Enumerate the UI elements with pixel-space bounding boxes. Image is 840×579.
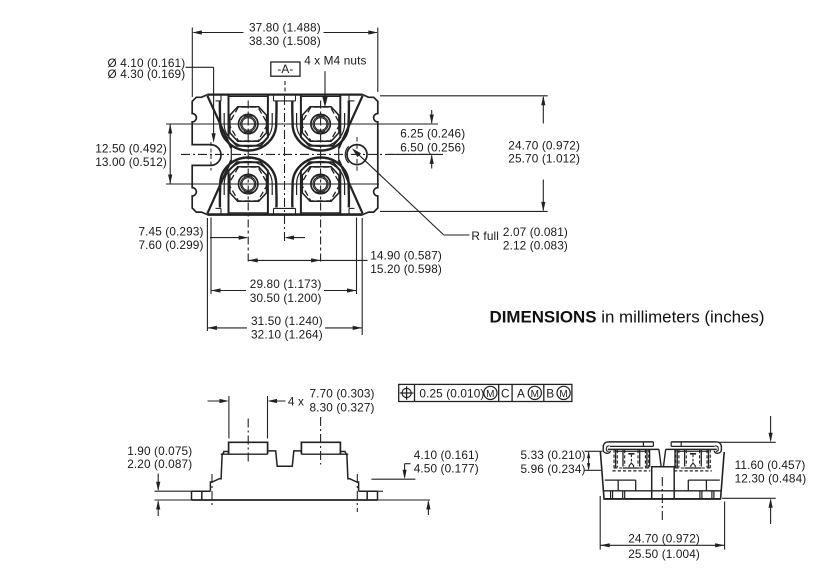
svg-text:4.50 (0.177): 4.50 (0.177) — [414, 461, 479, 475]
svg-text:M: M — [559, 389, 567, 400]
svg-text:M: M — [531, 389, 539, 400]
svg-text:DIMENSIONS in millimeters (inc: DIMENSIONS in millimeters (inches) — [490, 307, 765, 326]
svg-text:12.50 (0.492): 12.50 (0.492) — [95, 142, 167, 156]
svg-text:R full: R full — [471, 229, 499, 243]
svg-text:5.96 (0.234): 5.96 (0.234) — [521, 462, 586, 476]
svg-text:37.80 (1.488): 37.80 (1.488) — [249, 21, 321, 35]
svg-text:25.50 (1.004): 25.50 (1.004) — [628, 547, 700, 561]
svg-text:30.50 (1.200): 30.50 (1.200) — [250, 291, 322, 305]
svg-text:6.50 (0.256): 6.50 (0.256) — [400, 140, 465, 154]
svg-text:2.12 (0.083): 2.12 (0.083) — [503, 238, 568, 252]
svg-text:2.07 (0.081): 2.07 (0.081) — [503, 225, 568, 239]
svg-text:38.30 (1.508): 38.30 (1.508) — [249, 34, 321, 48]
svg-text:4 x: 4 x — [288, 394, 304, 408]
svg-text:Ø 4.30 (0.169): Ø 4.30 (0.169) — [108, 67, 186, 81]
svg-text:31.50 (1.240): 31.50 (1.240) — [251, 314, 323, 328]
svg-text:24.70 (0.972): 24.70 (0.972) — [508, 138, 580, 152]
svg-text:1.90 (0.075): 1.90 (0.075) — [127, 444, 192, 458]
svg-text:4.10 (0.161): 4.10 (0.161) — [414, 448, 479, 462]
svg-text:32.10 (1.264): 32.10 (1.264) — [251, 327, 323, 341]
svg-text:A: A — [517, 386, 525, 400]
svg-text:C: C — [501, 386, 510, 400]
svg-text:13.00 (0.512): 13.00 (0.512) — [95, 155, 167, 169]
svg-text:7.45 (0.293): 7.45 (0.293) — [138, 225, 203, 239]
svg-text:15.20 (0.598): 15.20 (0.598) — [370, 262, 442, 276]
svg-text:M: M — [486, 389, 494, 400]
svg-text:24.70 (0.972): 24.70 (0.972) — [628, 532, 700, 546]
svg-text:25.70 (1.012): 25.70 (1.012) — [508, 152, 580, 166]
svg-text:2.20 (0.087): 2.20 (0.087) — [127, 457, 192, 471]
svg-text:8.30 (0.327): 8.30 (0.327) — [310, 400, 375, 414]
svg-text:29.80 (1.173): 29.80 (1.173) — [250, 277, 322, 291]
svg-text:7.60 (0.299): 7.60 (0.299) — [138, 238, 203, 252]
svg-text:14.90 (0.587): 14.90 (0.587) — [370, 248, 442, 262]
svg-text:-A-: -A- — [277, 62, 293, 76]
svg-text:0.25 (0.010): 0.25 (0.010) — [419, 386, 484, 400]
svg-text:6.25 (0.246): 6.25 (0.246) — [400, 127, 465, 141]
svg-text:5.33 (0.210): 5.33 (0.210) — [521, 448, 586, 462]
svg-text:12.30 (0.484): 12.30 (0.484) — [735, 472, 807, 486]
svg-text:B: B — [546, 386, 554, 400]
svg-text:7.70 (0.303): 7.70 (0.303) — [310, 386, 375, 400]
svg-text:11.60 (0.457): 11.60 (0.457) — [735, 458, 806, 472]
svg-text:4 x M4 nuts: 4 x M4 nuts — [304, 54, 366, 68]
